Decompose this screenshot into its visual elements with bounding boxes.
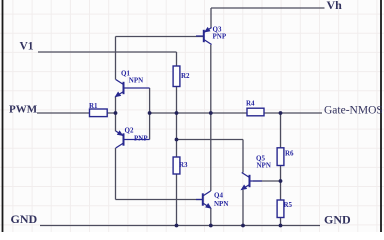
svg-text:NPN: NPN (257, 162, 271, 170)
svg-text:R1: R1 (89, 102, 98, 110)
svg-text:R3: R3 (179, 161, 188, 169)
svg-text:PWM: PWM (9, 103, 38, 115)
svg-text:Vh: Vh (327, 0, 343, 12)
svg-text:Gate-NMOS: Gate-NMOS (324, 104, 383, 116)
svg-text:Q4: Q4 (214, 191, 223, 199)
svg-text:V1: V1 (20, 41, 34, 53)
svg-text:R6: R6 (285, 150, 294, 158)
svg-text:PNP: PNP (134, 135, 148, 143)
svg-text:Q2: Q2 (125, 127, 134, 135)
svg-text:NPN: NPN (129, 76, 143, 84)
svg-text:R2: R2 (181, 72, 190, 80)
svg-text:NPN: NPN (214, 200, 228, 208)
svg-text:GND: GND (324, 213, 351, 227)
svg-text:GND: GND (11, 212, 38, 226)
svg-text:R5: R5 (284, 201, 293, 209)
svg-text:R4: R4 (246, 100, 255, 108)
svg-text:PNP: PNP (213, 33, 227, 41)
